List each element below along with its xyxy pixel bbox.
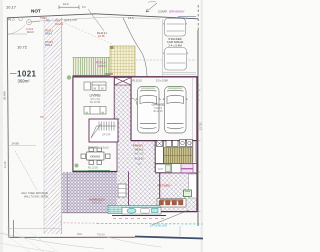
leader line to note (15, 151, 37, 190)
contour dashed diagonal (62, 22, 112, 44)
entry door mat (115, 78, 132, 86)
powder vanity (181, 164, 193, 169)
planter teal band (108, 206, 160, 214)
scan noise overlay (0, 0, 203, 252)
top boundary line (7, 14, 198, 19)
crosshatch corridor floor (115, 78, 132, 141)
garage left wall (130, 77, 132, 142)
bbq unit (118, 184, 126, 197)
ramp lines (163, 73, 196, 75)
tree circle (26, 20, 31, 25)
teal unit (152, 209, 159, 213)
kitchen side bench (189, 174, 197, 198)
dim extension line (179, 226, 181, 236)
leader arc (8, 25, 26, 35)
garage car right (163, 87, 187, 134)
laundry hall white (156, 141, 165, 172)
alfresco rear wall (112, 215, 166, 217)
right boundary ticks (197, 90, 201, 212)
stair treads (97, 122, 117, 131)
stair room walls (89, 119, 118, 142)
paper background (0, 0, 203, 252)
carport side line (162, 20, 164, 77)
left boundary line (7, 18, 9, 238)
strip right fence line (61, 18, 63, 234)
survey leader (88, 9, 104, 31)
strip left edge (43, 18, 45, 234)
bbq bench (122, 208, 161, 215)
tv unit (84, 107, 106, 115)
garage storage line (192, 78, 194, 140)
rear boundary green segment (9, 236, 55, 238)
cyan dashed kerb line (97, 222, 203, 225)
driveway underline (178, 16, 196, 18)
rear setback faint line (8, 228, 63, 230)
wall below stairs (155, 163, 197, 165)
crosshatch alfresco floor (62, 172, 117, 213)
dining bottom wall (73, 171, 118, 173)
plant blob (75, 164, 79, 168)
stair arrow (91, 124, 101, 138)
laundry wing left wall (154, 141, 156, 172)
hatched side strip (44, 18, 62, 234)
porch green louvre band (73, 58, 114, 76)
house left wall (72, 77, 74, 173)
living right wall (113, 77, 115, 120)
driveway dashed setback (136, 59, 196, 61)
wall below wc row (155, 172, 197, 174)
crosshatch kitchen floor (160, 172, 197, 211)
secondary kerb line (30, 17, 160, 22)
spa ellipse (127, 208, 136, 213)
bench tub (141, 209, 150, 214)
alfresco left post line (67, 172, 69, 213)
road corner diagonals (2, 231, 58, 252)
stacked car 2 (163, 48, 188, 71)
road navy line (135, 237, 203, 239)
wc room (156, 164, 172, 173)
house top wall (73, 76, 198, 78)
entry yellow paving grid (110, 46, 135, 77)
family left wall (116, 141, 118, 172)
alfresco slab edge (62, 212, 108, 214)
right boundary line (197, 5, 199, 30)
rear boundary maroon segment (55, 236, 135, 238)
plant blob (67, 75, 71, 79)
kitchen rear wall (160, 211, 197, 213)
alfresco right wall (128, 172, 130, 206)
driveway splay curve (123, 18, 147, 77)
internal stairs olive (164, 148, 193, 164)
window ticks right wall (197, 85, 200, 100)
top dimension arrow (59, 6, 79, 8)
laundry wall (163, 141, 165, 164)
crossover arrow (146, 3, 157, 12)
pink dashed kerb segment (60, 222, 97, 224)
kitchen right wall (196, 141, 198, 212)
pantry shelves (191, 142, 196, 162)
dining table (81, 148, 110, 165)
kitchen sink unit (184, 190, 192, 197)
stacked car 1 (163, 19, 187, 37)
stools (159, 201, 183, 206)
road faint arcs (0, 233, 104, 249)
garage car left (136, 87, 160, 134)
wall below garage (131, 140, 197, 142)
fence dashes (113, 218, 164, 220)
laundry appliance boxes (157, 140, 193, 147)
garage door arc green (132, 98, 138, 105)
sofa group (84, 82, 106, 91)
crosshatch family floor (117, 141, 160, 172)
retaining diagonal (152, 210, 189, 225)
garage right wall (196, 77, 198, 142)
island bench (157, 199, 186, 208)
